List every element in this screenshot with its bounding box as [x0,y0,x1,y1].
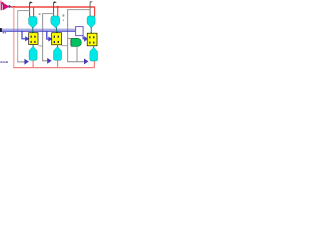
red supply rail top [11,6,95,8]
wire grey g8 branch from U1 [38,45,42,47]
tiny grey label near T2 [63,14,65,21]
wire pale red vertical feed (left) [13,7,15,68]
probe flag F1 [30,1,33,3]
tiny blue label under bus [3,32,6,33]
probe flag F2 [54,1,57,3]
green tick U2 top [56,31,57,33]
wire red branch to T2 top [57,7,59,17]
wire red stub below B3 [93,61,95,68]
wire red branch to T1 top [33,7,35,17]
probe flag F3 [90,1,93,3]
IC U2 (yellow box) [52,33,62,45]
junction dot on rail at x=13.8 [13,6,15,8]
arrow A4 into B1 [24,59,29,65]
link U3 bottom to B3 tip [93,46,95,49]
wire grey g11 horizontal top [68,9,91,11]
capsule B1 (cyan pin up) [29,47,37,61]
capsule T1 (cyan drop down) [29,17,37,28]
wire grey g2 horizontal [18,10,30,12]
red bottom rail [13,67,94,69]
capsule T2 (cyan drop down) [51,16,60,28]
tiny grey label near T1 [39,13,41,15]
link T3 tip to U3 [90,27,92,33]
capsule T3 (cyan drop down) [87,16,95,28]
wire grey g16 from G1 bottom [76,46,78,61]
link U1 bottom to B1 tip [32,45,34,48]
arrow A6 into B3 [84,59,89,65]
wire grey g7 vertical long [42,13,44,61]
IC U1 (yellow box) [29,33,38,45]
wire grey g9 to arrow [42,60,47,62]
arrow A2 into U2 [48,37,52,42]
wire grey g6 horizontal [43,13,54,15]
arrow A3 into U3 [84,36,87,42]
green tick U3 top [91,32,92,34]
capsule B3 (cyan pin up) [90,48,98,61]
IC U3 (yellow box) [87,33,97,46]
bus end marker [0,28,2,32]
probe flag F2 pole [53,2,55,16]
wire grey g15 to arrow [67,61,84,63]
node G1 (green D shape) [71,38,81,46]
net label marker top-left [0,1,3,5]
wire blue drop 2 [47,31,49,39]
tiny purple label bottom-left [0,61,8,63]
probe flag F1 pole [29,2,31,17]
probe flag F3 pole [89,2,91,16]
wire red branch to T3 top (rail corner) [94,7,96,17]
wire grey g4 to arrow [17,61,24,63]
blue bus upper line [0,28,76,30]
link T1 tip to U1 [32,27,34,32]
wire red stub below B2 [57,60,59,67]
wire blue drop 3 [83,36,85,39]
wire grey g14 branch from U2 [62,45,68,47]
wire blue drop 1 [22,31,25,39]
link U2 bottom to B2 tip [57,45,59,48]
blue bus lower line [0,30,76,32]
junction dot on rail at x=57.7 [57,6,59,8]
wire red stub below B1 [32,60,34,67]
input port P1 (magenta buffer) [1,2,12,10]
arrow A5 into B2 [47,58,52,64]
link T2 tip to U2 [55,27,57,32]
wire grey g3 vertical long [17,10,19,62]
frame rectangle (purple outlined) [76,27,84,36]
capsule B2 (cyan pin up) [54,47,62,60]
green tick U1 top [32,31,33,33]
wire grey g13 jog to G1 input [68,38,71,45]
arrow A1 into U1 [25,36,29,41]
wire grey g12 vertical long [67,9,69,62]
